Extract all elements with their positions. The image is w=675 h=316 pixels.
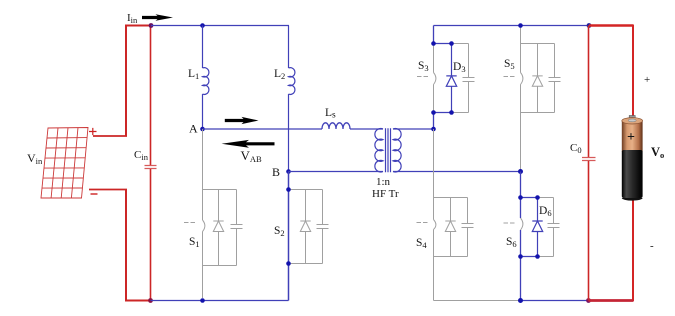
wire red bottom-left segment — [125, 300, 151, 302]
S6 box top rail gray part — [538, 197, 554, 199]
wire blue bottom bus output side — [521, 300, 589, 302]
S2 box top rail — [289, 189, 323, 191]
S4 switch gate dashes — [417, 222, 428, 224]
node S2 box bottom — [286, 261, 291, 266]
wire S4 branch top — [433, 129, 435, 198]
inductor L1 — [203, 26, 209, 130]
svg-text:Cin: Cin — [134, 149, 149, 162]
node S5 top — [518, 23, 523, 28]
wire S4 bottom lead — [433, 257, 435, 301]
switch S2 module — [289, 190, 329, 264]
inductor L2 — [289, 26, 295, 172]
svg-text:L1: L1 — [188, 68, 199, 81]
S3 switch lower stub — [433, 85, 435, 113]
wire blue top bus output side — [434, 25, 590, 27]
wire blue top bus input side — [151, 25, 289, 27]
node output bottom junction — [586, 298, 591, 303]
svg-text:S2: S2 — [274, 225, 285, 238]
PV minus sign — [91, 193, 98, 195]
wire S5 bottom lead — [520, 113, 522, 172]
wire S3 bottom lead — [433, 113, 435, 130]
switch S6 module — [504, 198, 560, 257]
S5 switch lower stub — [520, 85, 522, 113]
node S2 box top — [286, 187, 291, 192]
capacitor of S3 — [463, 44, 475, 113]
wire S6 main branch top — [520, 172, 522, 219]
node transformer secondary top junction — [431, 127, 436, 132]
capacitor of S2 — [317, 190, 329, 264]
diode of S4 — [445, 198, 455, 257]
S1 box bottom rail — [203, 265, 237, 267]
svg-text:S5: S5 — [504, 58, 515, 71]
battery Vo — [622, 116, 643, 201]
switch S4 module — [417, 129, 521, 301]
capacitor Co — [582, 26, 596, 301]
S3 box bottom rail blue part — [434, 112, 452, 114]
wire Ls to transformer primary top — [350, 128, 383, 130]
switch S1 module — [184, 129, 243, 298]
wire red left vertical bottom — [125, 189, 127, 301]
S1 switch blade — [203, 220, 205, 232]
arrow current A right — [225, 117, 259, 124]
transformer HF Tr — [375, 128, 401, 172]
S6 box bottom rail blue part — [521, 256, 538, 258]
S6 box top rail blue part — [521, 197, 538, 199]
switch S5 module — [504, 26, 561, 172]
svg-text:+: + — [627, 130, 635, 145]
S2 box bottom rail — [289, 263, 323, 265]
svg-text:S6: S6 — [506, 236, 517, 249]
primary winding — [375, 129, 383, 172]
PV panel Vin — [41, 128, 88, 199]
secondary winding — [393, 129, 401, 172]
svg-text:1:n: 1:n — [376, 176, 391, 188]
S3 switch upper stub — [433, 44, 435, 73]
wire secondary bottom to bridge — [393, 171, 521, 173]
node A — [200, 127, 205, 132]
S4 box bottom rail — [434, 256, 468, 258]
wire S1 bottom lead — [202, 266, 204, 299]
capacitor of S4 — [462, 198, 474, 257]
svg-text:Iin: Iin — [127, 12, 138, 25]
PV plus sign — [89, 128, 97, 135]
svg-text:S3: S3 — [418, 60, 429, 73]
wire S1 branch from A — [202, 129, 204, 190]
diode of S2 — [300, 190, 310, 264]
diode of S1 — [213, 190, 223, 266]
wire node B to transformer primary bottom — [289, 171, 384, 173]
svg-text:HF Tr: HF Tr — [372, 188, 399, 200]
S5 switch gate dashes — [504, 76, 515, 78]
S4 switch blade — [434, 220, 436, 230]
S1 switch lower stub — [202, 232, 204, 266]
node S6 bottom — [518, 298, 523, 303]
node B — [286, 169, 291, 174]
wire red top-left segment — [125, 25, 151, 27]
S1 box top rail — [203, 189, 237, 191]
S3 box bottom rail gray part — [452, 112, 469, 114]
svg-text:B: B — [272, 165, 280, 179]
svg-text:L2: L2 — [274, 68, 285, 81]
capacitor of S5 — [549, 44, 561, 113]
S4 switch upper stub — [433, 198, 435, 220]
svg-text:D3: D3 — [453, 61, 466, 74]
node S6 box top left — [518, 195, 523, 200]
wire S3 top lead — [433, 26, 435, 44]
wire gray bottom bus — [434, 300, 521, 302]
capacitor Cin — [145, 26, 157, 301]
node S6 box bottom left — [518, 254, 523, 259]
S4 switch lower stub — [433, 230, 435, 257]
node S6 box bottom right — [535, 254, 540, 259]
wire red output bottom segment — [589, 299, 634, 302]
node junction red-blue bottom — [148, 298, 153, 303]
capacitor of S1 — [231, 190, 243, 266]
node S3 box bottom right — [449, 110, 454, 115]
node junction red-blue top — [149, 23, 154, 28]
wire S6 main branch bottom — [520, 230, 522, 301]
svg-text:C0: C0 — [570, 142, 582, 155]
switch S3 module — [417, 44, 475, 113]
diode of S5 — [532, 44, 542, 113]
core lines — [386, 128, 391, 172]
svg-text:Vo: Vo — [651, 145, 664, 160]
S3 switch gate dashes — [417, 76, 428, 78]
svg-text:S1: S1 — [189, 236, 200, 249]
node output top junction — [587, 23, 592, 28]
S6 switch blade — [521, 218, 523, 230]
S3 box top rail gray part — [452, 43, 469, 45]
diode D3 — [446, 44, 456, 113]
S5 switch blade — [521, 73, 523, 85]
svg-text:-: - — [650, 240, 654, 252]
svg-text:A: A — [189, 122, 198, 136]
wire node A to Ls — [203, 128, 323, 130]
svg-text:+: + — [644, 74, 650, 86]
S1 switch gate dashes — [184, 222, 195, 224]
wire red output right vertical — [632, 25, 634, 302]
S3 box top rail blue part — [434, 43, 452, 45]
capacitor of S6 — [548, 198, 560, 257]
svg-text:D6: D6 — [539, 205, 552, 218]
node S3 box top right — [449, 41, 454, 46]
wire red PV positive lead — [93, 135, 127, 137]
arrow VAB left — [222, 140, 275, 148]
wire red output top segment — [589, 24, 633, 26]
S1 switch upper stub — [202, 190, 204, 221]
svg-text:VAB: VAB — [241, 148, 263, 164]
node S3 box bottom left — [431, 110, 436, 115]
wire red left vertical top — [125, 25, 127, 137]
node S1 bottom — [200, 298, 205, 303]
wire S2 main branch — [288, 172, 290, 301]
S5 box top rail — [521, 43, 555, 45]
wire S5 top lead — [520, 26, 522, 44]
svg-text:Vin: Vin — [27, 151, 43, 166]
svg-text:Ls: Ls — [325, 107, 336, 121]
svg-text:S4: S4 — [416, 237, 427, 250]
wire red PV negative lead — [89, 189, 127, 191]
S5 box bottom rail — [521, 112, 555, 114]
S4 box top rail — [434, 197, 468, 199]
S3 switch blade — [434, 73, 436, 85]
diode D6 — [532, 198, 542, 257]
S6 box bottom rail gray part — [538, 256, 554, 258]
node bridge midpoint right — [518, 169, 523, 174]
S6 switch gate dashes — [504, 222, 515, 224]
node L1 top — [200, 23, 205, 28]
S5 switch upper stub — [520, 44, 522, 73]
wire secondary top to bridge — [393, 128, 434, 130]
wire blue bottom bus input side — [151, 300, 289, 302]
node S6 box top right — [535, 195, 540, 200]
node S3 box top left — [431, 41, 436, 46]
inductor Ls — [322, 123, 350, 129]
arrow Iin — [142, 14, 173, 21]
